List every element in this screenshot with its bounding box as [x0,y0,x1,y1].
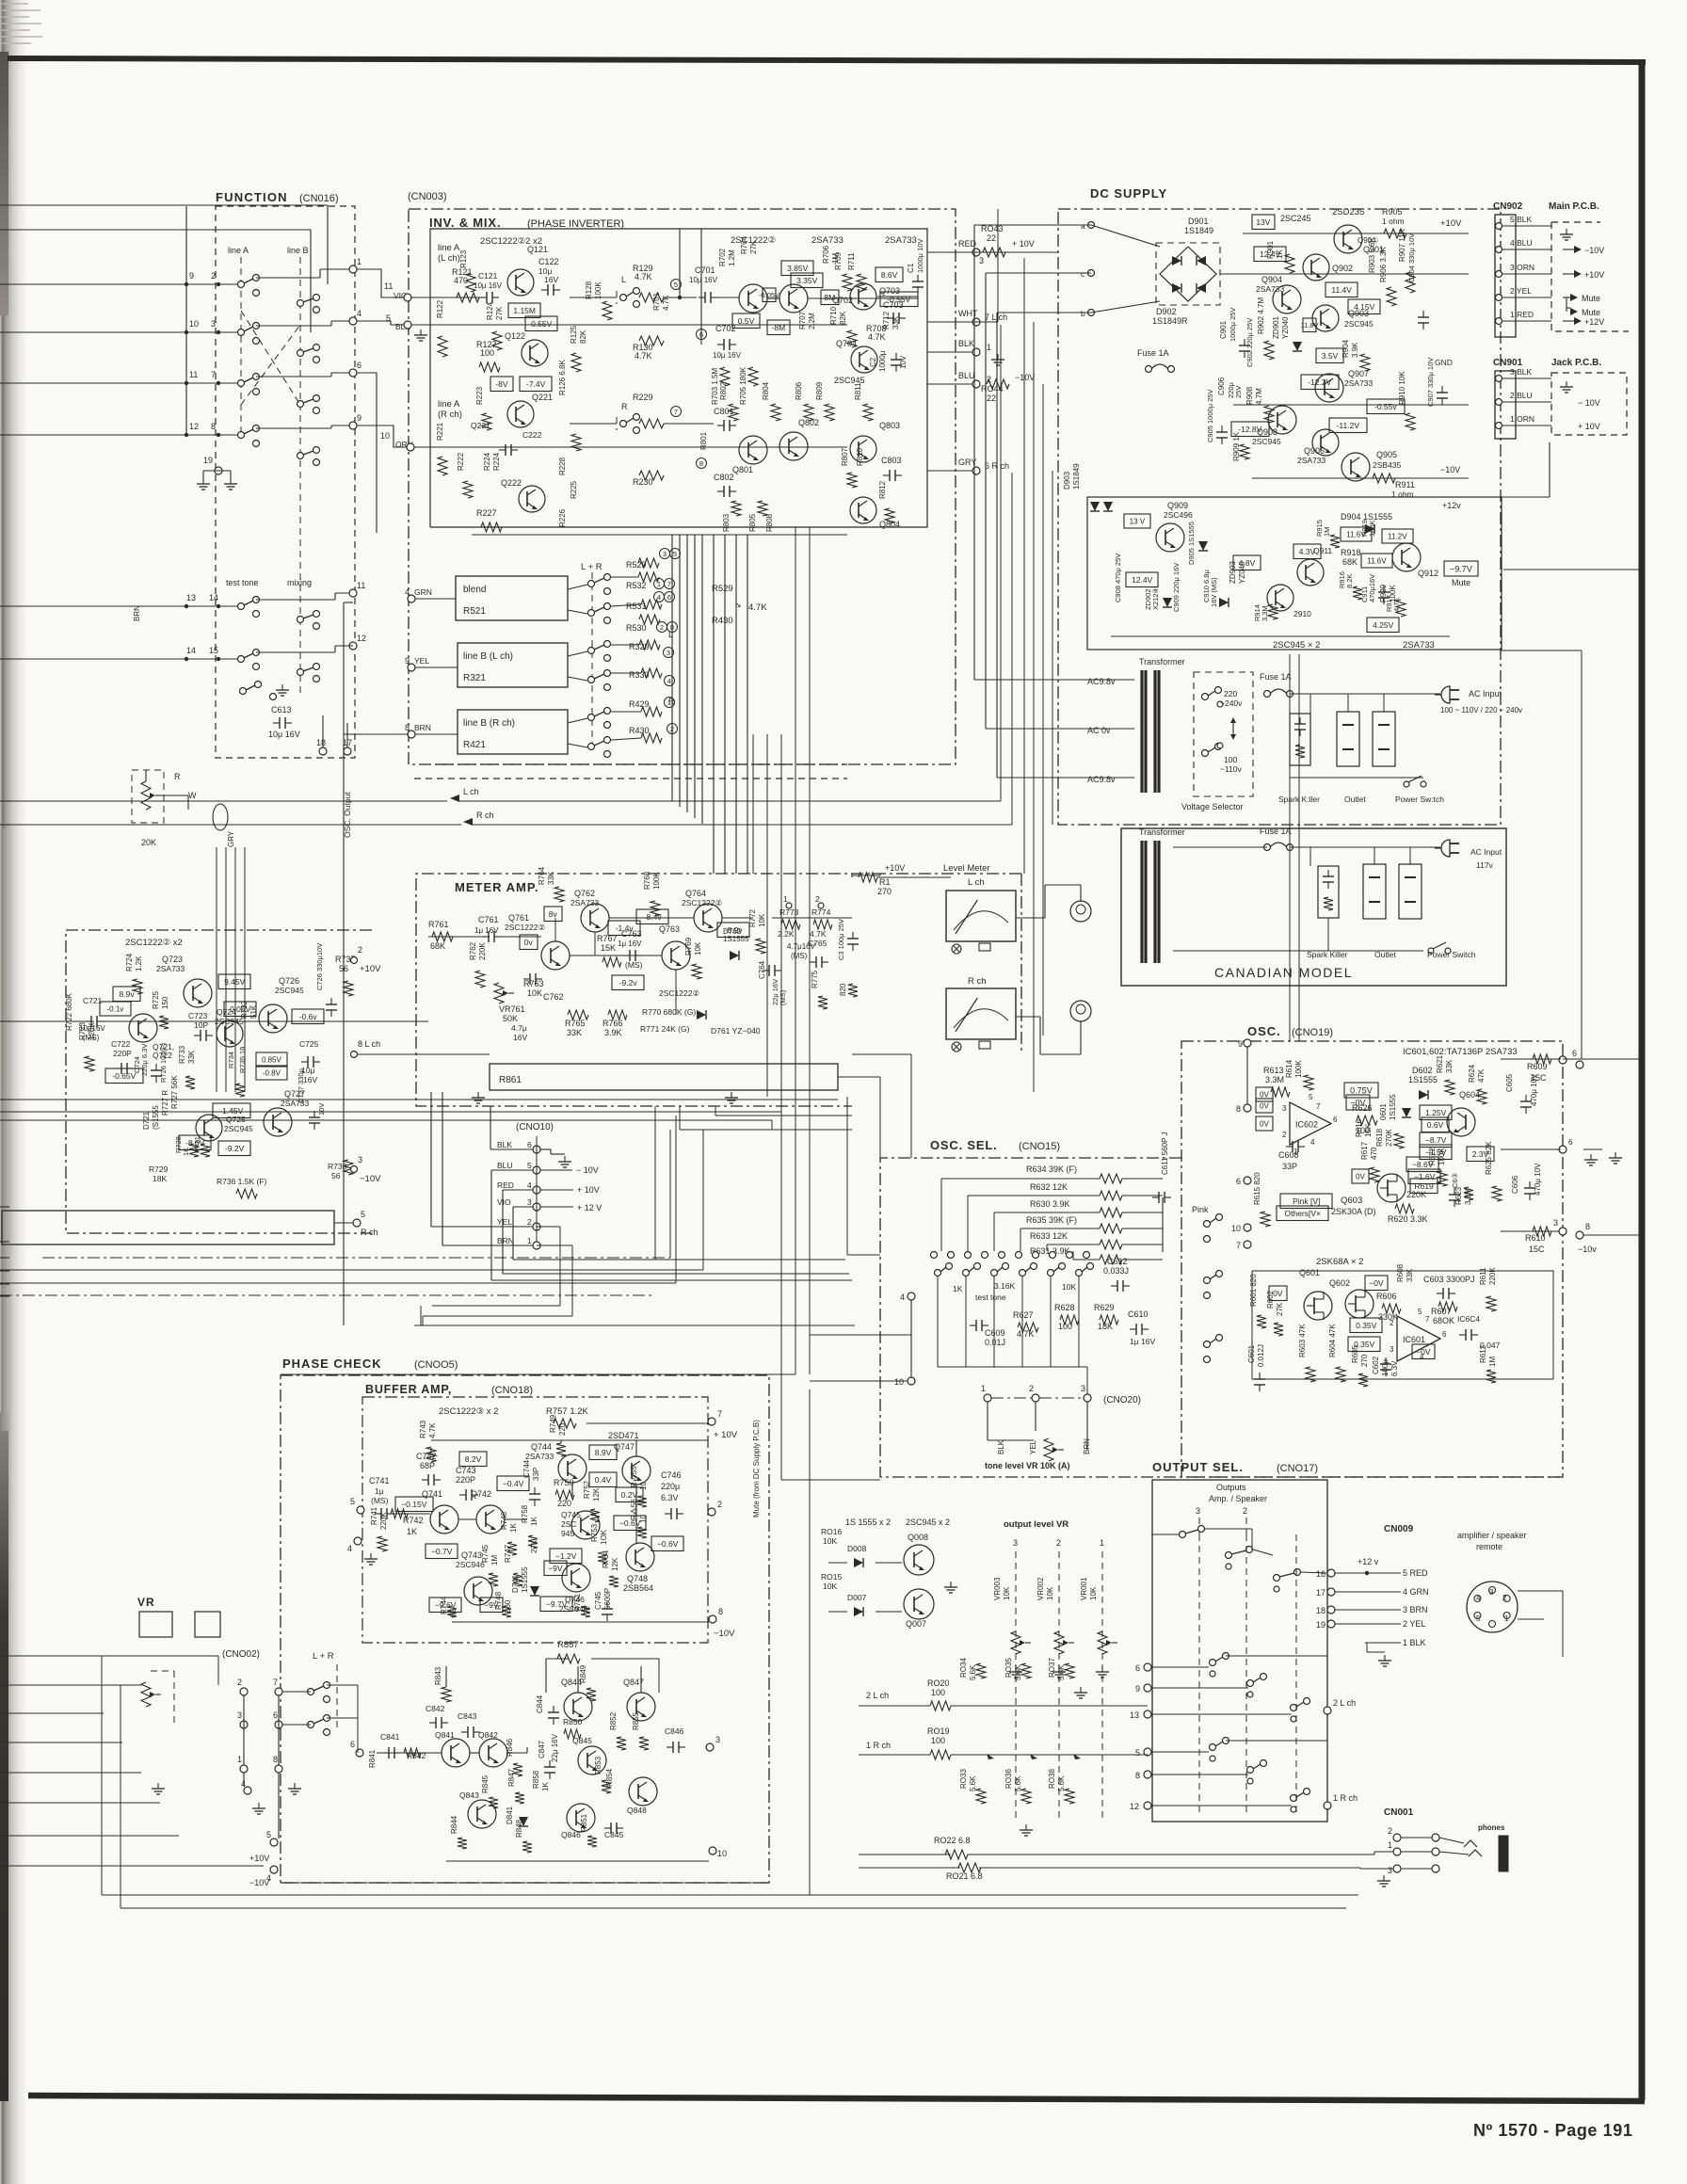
svg-text:Voltage Selector: Voltage Selector [1181,802,1244,811]
svg-text:R754: R754 [602,1550,610,1568]
svg-text:C725: C725 [299,1039,319,1049]
svg-text:Spark Killer: Spark Killer [1307,950,1348,959]
svg-text:FUNCTION: FUNCTION [216,190,288,204]
svg-text:R811: R811 [854,382,862,400]
svg-text:8v: 8v [549,909,558,919]
cable oval GRY [213,804,228,830]
outlet2a [1363,864,1386,919]
svg-text:3: 3 [1553,1218,1558,1228]
svg-text:-0.6v: -0.6v [299,1012,318,1021]
svg-text:2SK68A × 2: 2SK68A × 2 [1316,1257,1363,1267]
svg-text:R768: R768 [643,871,651,890]
svg-text:1S1849: 1S1849 [1072,463,1081,490]
svg-text:D903: D903 [1063,471,1071,490]
svg-text:−1.6V: −1.6V [1414,1172,1436,1181]
svg-text:0v: 0v [524,938,534,947]
wire [973,225,975,680]
svg-text:22μ 16V: 22μ 16V [551,1733,559,1762]
svg-text:10μ 16V: 10μ 16V [474,281,503,290]
voltage -9V [544,1561,567,1576]
svg-text:R531: R531 [626,602,647,611]
transistor Q723 [184,979,212,1007]
wire [859,1705,930,1707]
transistor Q761 [541,941,570,970]
wire [1226,1655,1327,1657]
node [678,296,682,299]
pin 9 [1244,1039,1251,1047]
svg-text:5 RED: 5 RED [1403,1568,1428,1578]
resistor stub wires [611,576,638,578]
svg-text:4: 4 [900,1293,905,1302]
svg-text:YEL: YEL [497,1217,512,1227]
potentiometer 20K [141,781,151,810]
CN020 dashdot [991,1397,1032,1399]
svg-text:7: 7 [1316,1102,1321,1111]
svg-text:R: R [621,402,628,411]
node 4 [349,317,357,325]
svg-text:BLK: BLK [958,339,974,348]
bus bottom 1 [102,1894,1358,1896]
svg-text:2SC1222② x2: 2SC1222② x2 [125,938,183,948]
svg-text:1K: 1K [1276,249,1284,259]
voltage -0.6V [614,1516,646,1531]
svg-text:22: 22 [987,393,996,403]
svg-text:8: 8 [1135,1771,1140,1780]
svg-text:R731: R731 [193,1136,201,1153]
svg-text:4.25V: 4.25V [1373,620,1394,630]
svg-text:5: 5 [527,1161,532,1170]
voltage -8.7V [1420,1132,1452,1148]
svg-text:BRN: BRN [133,605,141,621]
svg-text:R227: R227 [476,508,497,518]
svg-text:11.6V: 11.6V [1367,557,1387,566]
voltage 4.15V [1348,299,1380,314]
svg-text:−0.4V: −0.4V [503,1479,524,1488]
svg-text:D761 YZ−040: D761 YZ−040 [711,1026,761,1036]
transistor Q842 [479,1739,507,1767]
wire [256,325,331,327]
svg-text:9: 9 [1135,1684,1140,1694]
svg-text:(MS): (MS) [371,1496,389,1505]
svg-text:2.2M: 2.2M [808,313,816,329]
svg-text:Q008: Q008 [908,1533,928,1542]
svg-text:120K: 120K [88,1022,96,1040]
circled 7 [671,407,682,417]
svg-text:27K: 27K [1276,1302,1284,1316]
svg-text:2: 2 [358,945,362,955]
svg-text:Q764: Q764 [685,889,706,898]
svg-text:INV. & MIX.: INV. & MIX. [429,216,501,230]
wire bundle left [244,847,246,1092]
svg-text:3: 3 [1489,1588,1494,1597]
svg-text:R701: R701 [652,292,661,311]
voltage 1.15M [508,303,540,318]
svg-text:−0V: −0V [1416,1347,1431,1357]
svg-text:4.7K: 4.7K [868,332,886,342]
svg-text:3.9K: 3.9K [1351,342,1359,358]
voltage 8V [544,907,562,922]
svg-text:−10V: −10V [360,1174,381,1184]
svg-text:R743: R743 [419,1420,427,1438]
svg-text:R421: R421 [463,740,486,750]
label 13V [1252,215,1275,230]
wire [256,427,331,429]
svg-text:Q763: Q763 [659,924,680,934]
transistor Q802 [779,432,808,460]
oscsel col wires [937,1276,939,1367]
outlet box 2 [1373,712,1395,766]
svg-text:ZD903: ZD903 [1229,560,1237,584]
voltage -0V [1346,1095,1370,1110]
page top border frame [8,58,1646,62]
svg-text:OSC. SEL.: OSC. SEL. [930,1138,998,1152]
svg-text:5: 5 [386,313,391,323]
svg-text:C845: C845 [604,1830,624,1839]
svg-text:R722 680K: R722 680K [65,992,73,1031]
svg-text:(MS): (MS) [625,960,643,970]
svg-text:68P: 68P [420,1461,435,1470]
svg-text:R763: R763 [523,979,544,988]
svg-text:-11.2V: -11.2V [1337,421,1360,430]
svg-text:C703: C703 [883,300,904,310]
svg-text:100K: 100K [1389,585,1397,602]
wire [0,331,241,333]
voltage 0V [1352,1169,1369,1183]
svg-text:1K: 1K [953,1284,963,1293]
transistor Q007 [904,1589,934,1619]
svg-text:Transformer: Transformer [1139,827,1185,837]
phase box bottom [281,1882,769,1884]
svg-text:15K: 15K [601,943,616,953]
pin 10 [709,1847,716,1855]
svg-text:C222: C222 [522,430,542,440]
pin 4 -10V [270,1866,278,1873]
voltage -1.4V [608,921,640,936]
svg-text:R612: R612 [1479,1344,1487,1363]
svg-text:3: 3 [1282,1104,1287,1113]
svg-text:14: 14 [209,593,218,602]
svg-text:9: 9 [189,271,194,281]
svg-text:R758: R758 [521,1504,529,1523]
transistor Q703 [850,283,876,310]
svg-text:b: b [1081,309,1085,318]
svg-text:2: 2 [1056,1538,1061,1548]
wire [256,277,320,279]
svg-text:− 10V: − 10V [1578,398,1600,408]
svg-text:Q801: Q801 [732,465,753,474]
transistor Q903 [1312,305,1339,331]
switch S1b [297,300,304,307]
svg-text:5: 5 [673,550,677,558]
svg-text:Mute: Mute [1582,294,1600,303]
bridge diode 4 [1197,283,1206,293]
svg-text:test tone: test tone [226,578,259,587]
wire [0,658,9,660]
voltage -9.6V [429,1598,461,1613]
svg-text:3: 3 [527,1197,532,1207]
voltage -11.2V [1329,418,1367,433]
svg-text:R709: R709 [834,251,843,270]
svg-text:D901: D901 [1188,217,1209,226]
svg-text:6: 6 [1333,1116,1338,1124]
svg-text:VR002: VR002 [1036,1577,1045,1600]
wire r861 right [838,1076,880,1078]
bundle h 1349 [0,1269,703,1271]
wire [0,1283,9,1285]
ground [1566,381,1567,387]
switch cn002 a [308,1689,314,1695]
wire buffer bus [388,1513,430,1515]
svg-text:R854: R854 [605,1768,614,1787]
pin 6 [356,1749,363,1757]
svg-text:Nº 1570 - Page 191: Nº 1570 - Page 191 [1473,2121,1632,2140]
svg-text:220K: 220K [379,1512,388,1530]
svg-text:Q905: Q905 [1376,450,1397,459]
svg-text:−0.15V: −0.15V [401,1500,427,1509]
svg-text:(CNOO5): (CNOO5) [414,1359,458,1371]
svg-text:(L ch): (L ch) [438,253,460,264]
voltage 12.4V [1254,247,1286,262]
svg-text:R852: R852 [609,1711,618,1730]
sw row R3 [1291,1795,1297,1802]
svg-text:C908 470μ 25V: C908 470μ 25V [1114,554,1122,602]
svg-text:C802: C802 [714,473,734,482]
svg-text:2SA733: 2SA733 [885,235,917,246]
svg-text:↘: ↘ [734,600,742,609]
wire [0,605,241,607]
bus bottom 2 [120,1907,1346,1909]
bridge diode 3 [1172,283,1181,293]
svg-text:R845: R845 [481,1774,490,1793]
svg-text:4: 4 [657,593,661,602]
AC plug [1441,686,1450,703]
svg-text:C742: C742 [416,1452,437,1461]
svg-text:-8.4v: -8.4v [644,912,663,922]
voltage 11.8V [1303,318,1316,332]
svg-text:100K: 100K [652,872,661,890]
voltage 1.25V [1420,1105,1452,1120]
transistor Q764 [694,904,722,932]
svg-text:R810: R810 [856,447,864,466]
svg-text:10K: 10K [823,1582,837,1591]
svg-text:33K: 33K [567,1028,582,1037]
svg-text:a: a [1081,221,1085,231]
svg-text:1K: 1K [182,1148,190,1156]
svg-text:Q907: Q907 [1348,369,1369,378]
svg-text:R430: R430 [629,726,650,735]
svg-text:470: 470 [1370,1147,1378,1160]
svg-text:3.9K: 3.9K [604,1028,622,1037]
svg-text:5: 5 [350,1497,355,1506]
switch S2a [238,329,245,336]
wire [0,331,9,333]
svg-text:4: 4 [1310,1138,1315,1147]
voltage -1.2V [550,1549,582,1564]
dashed [336,1664,338,1732]
svg-text:470μ16V: 470μ16V [1368,574,1376,602]
node 11 [349,589,357,597]
wire [876,1562,902,1564]
svg-text:R621: R621 [1436,1054,1444,1073]
svg-text:12: 12 [357,634,366,643]
svg-text:2SB564: 2SB564 [623,1583,653,1593]
node 1 [349,265,357,273]
svg-text:33P: 33P [1282,1162,1297,1171]
svg-text:3 BRN: 3 BRN [1403,1605,1428,1614]
svg-text:Level Meter: Level Meter [943,863,990,874]
svg-text:L ch: L ch [463,787,479,796]
svg-text:R225: R225 [570,480,578,499]
svg-text:9: 9 [1238,1039,1243,1049]
voltage -1.6V [1408,1169,1440,1184]
svg-text:0V: 0V [1260,1120,1269,1129]
svg-text:18: 18 [316,738,326,747]
svg-text:5: 5 [1418,1308,1422,1316]
svg-text:BRN: BRN [414,723,431,732]
svg-text:6: 6 [1568,1138,1573,1147]
svg-text:R⁂55: R⁂55 [630,1466,638,1487]
svg-text:C609: C609 [985,1328,1005,1338]
bundle h 1398 [423,1315,572,1317]
svg-text:1 ORN: 1 ORN [1510,414,1534,424]
switch S3b [297,401,304,408]
wire jog 6-down [357,373,377,533]
circled 5 [671,280,682,290]
svg-text:R603 47K: R603 47K [1298,1324,1307,1357]
voltage 4.3V [1293,544,1321,559]
arrow +12V [1563,320,1574,322]
AC plug2 [1441,840,1450,857]
svg-text:2: 2 [527,1217,532,1227]
svg-text:2SA733: 2SA733 [811,235,843,246]
svg-text:R775: R775 [811,970,819,988]
svg-text:-9.2v: -9.2v [619,978,638,988]
svg-text:220P: 220P [456,1475,475,1485]
svg-text:13 V: 13 V [1130,518,1146,526]
svg-text:+ 10V: + 10V [577,1185,600,1195]
INV&MIX bottom dashdot [435,763,847,765]
voltage 11.4V [1325,282,1358,297]
wire [0,1241,9,1243]
svg-text:+10V: +10V [1440,218,1462,229]
blend stubs [568,585,587,589]
svg-text:9: 9 [357,413,361,423]
transistor Q726 [259,1004,287,1033]
svg-text:R906 3.3K: R906 3.3K [1379,247,1388,282]
pot taps [987,1754,994,1759]
svg-text:15K: 15K [1364,1123,1373,1137]
svg-text:Others[V×: Others[V× [1284,1209,1321,1218]
wire lch bus [358,1053,428,1055]
svg-text:100K: 100K [1294,1060,1303,1078]
svg-text:13V: 13V [1256,217,1270,227]
svg-text:BLU: BLU [958,371,975,380]
svg-text:8: 8 [211,422,216,431]
svg-text:10μ 16V: 10μ 16V [689,276,718,284]
connector CN902 box [1495,215,1516,337]
voltage 0V a [1256,1087,1273,1101]
Rch arrow [463,818,473,826]
OSC SEL dash-dot box [880,1158,1563,1477]
svg-text:RO37: RO37 [1048,1658,1056,1678]
meter L [946,891,1016,941]
svg-text:X212④: X212④ [1151,586,1160,610]
bundle h 1376 [0,1294,653,1296]
svg-text:R901: R901 [1266,240,1275,259]
svg-text:1S1555: 1S1555 [1408,1075,1438,1084]
transistor Q721 [129,1014,157,1042]
CN902 pin 1 RED [1496,318,1502,325]
svg-text:6: 6 [1135,1663,1140,1673]
svg-text:WHT: WHT [958,309,978,318]
voltage 0.55V [525,316,557,331]
svg-text:1: 1 [667,699,671,707]
svg-text:4: 4 [1476,1594,1481,1602]
svg-text:20K: 20K [141,838,156,847]
svg-text:3: 3 [663,550,667,558]
svg-text:2SC945: 2SC945 [1344,319,1374,329]
wire cn010 blu [491,1169,533,1171]
svg-text:5: 5 [361,1210,365,1219]
svg-text:8.6V: 8.6V [881,270,898,280]
svg-text:Q845: Q845 [572,1736,592,1745]
opamp IC602 [1290,1102,1331,1145]
wire jog 9-ORN [357,426,407,447]
svg-text:2 BLU: 2 BLU [1510,391,1533,400]
svg-text:27K: 27K [749,240,758,254]
wire jog 4-BLK [357,321,404,325]
svg-text:R841: R841 [368,1749,377,1768]
svg-text:R904: R904 [1342,339,1350,358]
wire cn010 brn [442,1245,533,1246]
svg-text:R711: R711 [847,252,856,270]
voltage -8M [767,320,790,335]
pin 3 [706,1743,714,1751]
arrow +10V [1563,273,1574,275]
svg-text:YEL: YEL [1029,1439,1037,1454]
svg-text:line A: line A [438,243,460,253]
svg-text:C905 1000μ 25V: C905 1000μ 25V [1206,390,1214,442]
svg-text:1μ: 1μ [375,1486,384,1496]
svg-text:R750: R750 [554,1478,574,1487]
svg-text:15C: 15C [1531,1073,1547,1083]
voltage -8.6V [1406,1157,1438,1172]
svg-text:16V: 16V [513,1033,527,1042]
pin 7 +10V [708,1418,715,1425]
svg-text:Q803: Q803 [879,421,900,430]
meter R terms [952,1042,961,1052]
svg-text:+10V: +10V [360,964,381,974]
svg-text:4.7M: 4.7M [1255,388,1263,405]
sw out3 [1274,1575,1280,1582]
dashed pot box [132,770,164,823]
wire [1290,846,1440,848]
wire row316 segs [570,297,617,298]
svg-text:0601: 0601 [1379,1103,1388,1120]
svg-text:R844: R844 [450,1815,458,1834]
svg-text:R744: R744 [440,1596,448,1614]
svg-text:5: 5 [1135,1748,1140,1758]
svg-text:12.4V: 12.4V [1132,575,1153,585]
svg-text:R224: R224 [483,452,491,471]
wire [679,229,681,297]
svg-text:− 10V: − 10V [576,1165,599,1175]
svg-text:+12V: +12V [1584,317,1604,327]
switch blend a [588,581,595,587]
svg-text:L + R: L + R [313,1651,334,1662]
svg-text:−0V: −0V [1369,1278,1384,1288]
svg-text:R635 39K (F): R635 39K (F) [1026,1215,1077,1225]
